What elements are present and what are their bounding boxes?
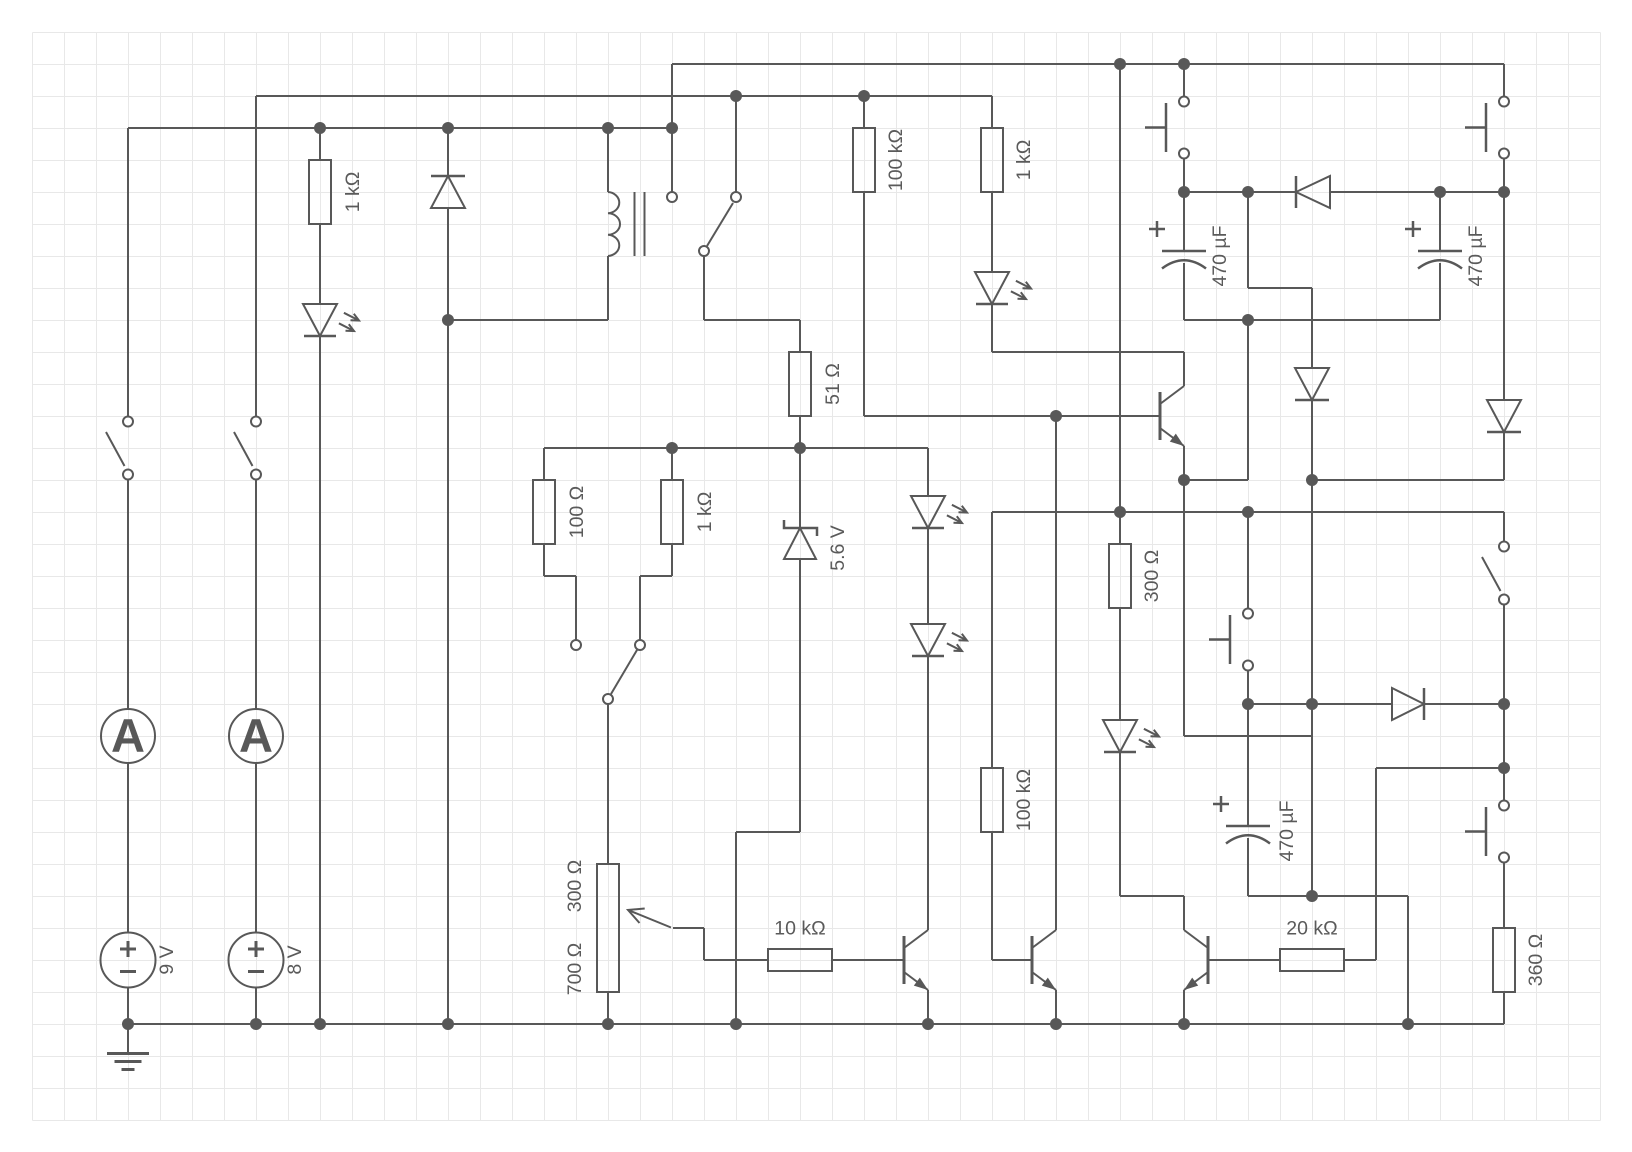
wire Q1 emitter net vertical xyxy=(1247,320,1249,480)
resistor R9 xyxy=(1109,544,1131,608)
wire pot to bus xyxy=(607,992,609,1024)
wire top rail V+ right xyxy=(672,63,1504,65)
resistor R5 xyxy=(768,949,832,971)
node junction at 864,96 xyxy=(858,90,870,102)
wire R3 bottom jog a xyxy=(543,544,545,576)
node junction at 672,448 xyxy=(666,442,678,454)
diode D9 xyxy=(1295,368,1329,400)
wire zener chain jog xyxy=(736,831,800,833)
wire Q4 base to R10 xyxy=(1208,959,1280,961)
switch SW4 SPDT xyxy=(571,640,645,704)
svg-text:470 µF: 470 µF xyxy=(1276,800,1298,861)
wire V+ to R9 xyxy=(1119,64,1121,544)
ammeter AM1 xyxy=(101,709,155,763)
wire R6 to base rail xyxy=(863,192,865,416)
wire Q3 emitter to bus xyxy=(1055,990,1057,1024)
capacitor C1 xyxy=(1149,221,1206,269)
pushbutton PB2 xyxy=(1465,97,1509,159)
wire C1 bottom lead xyxy=(1183,263,1185,320)
label R4 value xyxy=(694,492,716,533)
LED D4 xyxy=(975,272,1031,304)
node junction at 448,320 xyxy=(442,314,454,326)
diode D11 xyxy=(1392,688,1424,720)
wire R6 top lead xyxy=(863,96,865,128)
wire net D8 cathode xyxy=(1184,191,1296,193)
wire PB3 to D11 anode xyxy=(1248,703,1392,705)
wire R4 to SW4 throw xyxy=(639,576,641,640)
wire C2 top lead xyxy=(1439,192,1441,251)
node junction at 1184,64 xyxy=(1178,58,1190,70)
svg-text:9 V: 9 V xyxy=(156,945,178,974)
pushbutton PB1 xyxy=(1145,97,1189,159)
wire net D8 anode xyxy=(1330,191,1504,193)
wire Q4 emitter to bus xyxy=(1183,990,1185,1024)
transistor Q2 xyxy=(904,930,928,990)
node junction at 1120,64 xyxy=(1114,58,1126,70)
wire D2 top lead xyxy=(447,128,449,176)
wire relay coil bottom lead xyxy=(607,256,609,320)
node junction at 1184,480 xyxy=(1178,474,1190,486)
resistor R10 xyxy=(1280,949,1344,971)
wire SW3 net down xyxy=(1503,704,1505,801)
ground xyxy=(107,1024,149,1070)
wire battery2 branch d xyxy=(255,987,257,1024)
wire R10 up lead xyxy=(1375,768,1377,960)
wire Q1 emitter to D9 net xyxy=(1184,735,1312,737)
wire D3 anode down xyxy=(799,560,801,832)
svg-text:100 Ω: 100 Ω xyxy=(566,486,588,539)
wire PB4 to R11 xyxy=(1503,863,1505,928)
wire Q4 collector lead xyxy=(1183,896,1185,930)
wire battery1 branch b xyxy=(127,480,129,709)
resistor R6 xyxy=(853,128,875,192)
wire D9 anode down xyxy=(1311,400,1313,896)
voltage source V1 xyxy=(101,933,156,988)
wire battery2 branch a xyxy=(255,96,257,416)
wire D10 bottom lead xyxy=(1503,432,1505,480)
node junction at 320,1024 xyxy=(314,1018,326,1030)
node junction at 1312,896 xyxy=(1306,890,1318,902)
relay K1 coil xyxy=(608,192,645,256)
LED D7 xyxy=(1103,720,1159,752)
wire R4 bottom jog a xyxy=(671,544,673,576)
label R5 value xyxy=(774,918,825,940)
node junction at 1504,192 xyxy=(1498,186,1510,198)
node junction at 1120,512 xyxy=(1114,506,1126,518)
svg-text:100 kΩ: 100 kΩ xyxy=(1013,769,1035,831)
label C1 value xyxy=(1209,225,1231,286)
wire Q2 emitter to bus xyxy=(927,990,929,1024)
wire C3 bottom lead xyxy=(1247,838,1249,896)
wire R4 top lead xyxy=(671,448,673,480)
label R10 value xyxy=(1286,918,1337,940)
wire R1 top lead xyxy=(319,128,321,160)
node junction at 1184,1024 xyxy=(1178,1018,1190,1030)
wire LED D7 to Q4 collector xyxy=(1120,895,1184,897)
node junction at 1248,704 xyxy=(1242,698,1254,710)
wire relay common lead xyxy=(703,256,705,320)
wire SW3 bottom lead xyxy=(1503,605,1505,704)
wire D4 bottom lead xyxy=(991,304,993,352)
wire R8 to Q3 base jog xyxy=(991,832,993,960)
wire D9 to D10 link xyxy=(1312,479,1504,481)
label P1 upper value xyxy=(564,860,586,913)
wire PB1 top lead xyxy=(1183,64,1185,97)
wire D7 to Q4 net xyxy=(1119,752,1121,896)
node junction at 608,1024 xyxy=(602,1018,614,1030)
node junction at 1056,1024 xyxy=(1050,1018,1062,1030)
node junction at 800,448 xyxy=(794,442,806,454)
node junction at 1056,416 xyxy=(1050,410,1062,422)
transistor Q3 xyxy=(1032,930,1056,990)
wire node to Q3 collector xyxy=(1055,416,1057,930)
wire D11 cathode to SW3 net xyxy=(1424,703,1504,705)
label P1 lower value xyxy=(564,943,586,996)
svg-text:700 Ω: 700 Ω xyxy=(564,943,586,996)
wire R8 to Q3 base xyxy=(992,959,1032,961)
svg-text:100 kΩ: 100 kΩ xyxy=(885,129,907,191)
wire battery1 branch c xyxy=(127,763,129,933)
wire battery1 branch a xyxy=(127,128,129,416)
node junction at 128,1024 xyxy=(122,1018,134,1030)
svg-text:A: A xyxy=(239,709,273,762)
wire battery2 branch c xyxy=(255,763,257,933)
node junction at 1504,704 xyxy=(1498,698,1510,710)
wire mid rail to SW3 xyxy=(992,511,1504,513)
switch SW3 xyxy=(1482,542,1509,605)
ammeter AM2 xyxy=(229,709,283,763)
pushbutton PB4 xyxy=(1465,801,1509,863)
pushbutton PB3 xyxy=(1209,609,1253,671)
wire R3 to SW4 throw xyxy=(575,576,577,640)
zener diode D3 xyxy=(784,520,817,559)
LED D6 xyxy=(911,624,967,656)
wire C1 net vertical xyxy=(1247,192,1249,288)
resistor R8 xyxy=(981,768,1003,832)
node junction at 1184,192 xyxy=(1178,186,1190,198)
resistor R2 xyxy=(789,352,811,416)
wire battery1 branch d xyxy=(127,987,129,1024)
resistor R4 xyxy=(661,480,683,544)
node junction at 1248,320 xyxy=(1242,314,1254,326)
node junction at 1248,512 xyxy=(1242,506,1254,518)
wire PB1 to C1 xyxy=(1183,159,1185,251)
wire ground bus xyxy=(128,1023,1504,1025)
wire zener chain to bus xyxy=(735,832,737,1024)
node junction at 448,128 xyxy=(442,122,454,134)
node junction at 608,128 xyxy=(602,122,614,134)
resistor R11 xyxy=(1493,928,1515,992)
wire Q1 collector lead xyxy=(1183,352,1185,386)
capacitor C3 xyxy=(1213,796,1270,844)
wire R3 top lead xyxy=(543,448,545,480)
wire R2 to D3 xyxy=(799,416,801,528)
wire R10 right lead xyxy=(1344,959,1376,961)
node junction at 672,128 xyxy=(666,122,678,134)
wire R4 bottom jog b xyxy=(640,575,672,577)
svg-text:1 kΩ: 1 kΩ xyxy=(694,492,716,533)
resistor R1 xyxy=(309,160,331,224)
label R7 value xyxy=(1013,140,1035,181)
svg-text:A: A xyxy=(111,709,145,762)
node junction at 736,96 xyxy=(730,90,742,102)
switch SW1 xyxy=(106,417,133,480)
wire D6 to Q2 collector xyxy=(927,656,929,930)
wire relay contact a lead xyxy=(671,64,673,192)
svg-text:51 Ω: 51 Ω xyxy=(822,363,844,405)
wire mid rail to PB3 xyxy=(1247,512,1249,609)
wire R7 top lead xyxy=(991,96,993,128)
resistor R7 xyxy=(981,128,1003,192)
label V2 value xyxy=(284,945,306,974)
wire SW3 top lead xyxy=(1503,512,1505,541)
wire mid rail to R8 xyxy=(991,512,993,768)
svg-text:360 Ω: 360 Ω xyxy=(1525,934,1547,987)
label V1 value xyxy=(156,945,178,974)
wire PB2 top lead xyxy=(1503,64,1505,97)
node junction at 928,1024 xyxy=(922,1018,934,1030)
transistor Q1 xyxy=(1160,386,1184,446)
relay K1 contacts xyxy=(667,192,741,256)
wire divider mid rail xyxy=(544,447,928,449)
node junction at 1312,480 xyxy=(1306,474,1318,486)
svg-text:5.6 V: 5.6 V xyxy=(827,525,849,571)
wire battery2 branch b xyxy=(255,480,257,709)
label R1 value xyxy=(342,172,364,213)
potentiometer P1 xyxy=(597,864,671,992)
wire rail row2 xyxy=(256,95,992,97)
wire D2 to bus xyxy=(447,208,449,1024)
svg-text:300 Ω: 300 Ω xyxy=(1141,550,1163,603)
transistor Q4 xyxy=(1184,930,1208,990)
node junction at 1312,704 xyxy=(1306,698,1318,710)
svg-text:1 kΩ: 1 kΩ xyxy=(1013,140,1035,181)
wire R7 to D4 xyxy=(991,192,993,272)
node junction at 736,1024 xyxy=(730,1018,742,1030)
wire cap C1/C2 bottom link xyxy=(1184,319,1440,321)
wire bus branch right xyxy=(1407,896,1409,1024)
wire PB2 to D10 xyxy=(1503,159,1505,400)
node junction at 256,1024 xyxy=(250,1018,262,1030)
wire R10 to SW3 net xyxy=(1376,767,1504,769)
wire R9 to D7 xyxy=(1119,608,1121,720)
svg-text:1 kΩ: 1 kΩ xyxy=(342,172,364,213)
wire C2 bottom lead xyxy=(1439,263,1441,320)
wire C1 net jog xyxy=(1248,287,1312,289)
label R2 value xyxy=(822,363,844,405)
label R11 value xyxy=(1525,934,1547,987)
label R8 value xyxy=(1013,769,1035,831)
label D3 value xyxy=(827,525,849,571)
wire D5 top lead xyxy=(927,448,929,496)
diode D8 xyxy=(1296,176,1330,208)
wire R6 to Q1 base xyxy=(864,415,1160,417)
node junction at 448,1024 xyxy=(442,1018,454,1030)
label R9 value xyxy=(1141,550,1163,603)
svg-text:10 kΩ: 10 kΩ xyxy=(774,918,825,940)
node junction at 1440,192 xyxy=(1434,186,1446,198)
wire R3 bottom jog b xyxy=(544,575,576,577)
wire Q1 emitter link left xyxy=(1184,479,1248,481)
voltage source V2 xyxy=(229,933,284,988)
wire wiper link v xyxy=(703,928,705,960)
wire Q1 emitter down xyxy=(1183,446,1185,736)
label C2 value xyxy=(1465,225,1487,286)
wire SW4 common to pot xyxy=(607,704,609,864)
wire relay contact b lead xyxy=(735,96,737,192)
resistor R3 xyxy=(533,480,555,544)
node junction at 1408,1024 xyxy=(1402,1018,1414,1030)
wire D1 to bus xyxy=(319,336,321,1024)
diode D10 xyxy=(1487,400,1521,432)
diode D2 xyxy=(431,176,465,208)
svg-text:300 Ω: 300 Ω xyxy=(564,860,586,913)
capacitor C2 xyxy=(1405,221,1462,269)
wire R1 to D1 xyxy=(319,224,321,304)
svg-text:470 µF: 470 µF xyxy=(1465,225,1487,286)
wire relay coil bottom link xyxy=(448,319,608,321)
label R6 value xyxy=(885,129,907,191)
LED D1 xyxy=(303,304,359,336)
wire R5 to Q2 base xyxy=(832,959,904,961)
wire relay coil top lead xyxy=(607,128,609,192)
node junction at 1504,768 xyxy=(1498,762,1510,774)
wire R11 to bus xyxy=(1503,992,1505,1024)
wire LED D4 to Q1 collector xyxy=(992,351,1184,353)
label C3 value xyxy=(1276,800,1298,861)
svg-text:470 µF: 470 µF xyxy=(1209,225,1231,286)
node junction at 1248,192 xyxy=(1242,186,1254,198)
label R3 value xyxy=(566,486,588,539)
switch SW2 xyxy=(234,417,261,480)
wire D9 top lead xyxy=(1311,288,1313,368)
wire D5 to D6 xyxy=(927,528,929,624)
wire wiper link h xyxy=(673,927,704,929)
LED D5 xyxy=(911,496,967,528)
svg-text:20 kΩ: 20 kΩ xyxy=(1286,918,1337,940)
svg-text:8 V: 8 V xyxy=(284,945,306,974)
wire C3 bottom to bus right xyxy=(1248,895,1408,897)
wire relay common to R2 xyxy=(704,319,800,321)
wire R2 top lead xyxy=(799,320,801,352)
node junction at 320,128 xyxy=(314,122,326,134)
wire rail row3 xyxy=(128,127,672,129)
wire wiper to R5 xyxy=(704,959,768,961)
wire PB3 to C3 xyxy=(1247,671,1249,826)
